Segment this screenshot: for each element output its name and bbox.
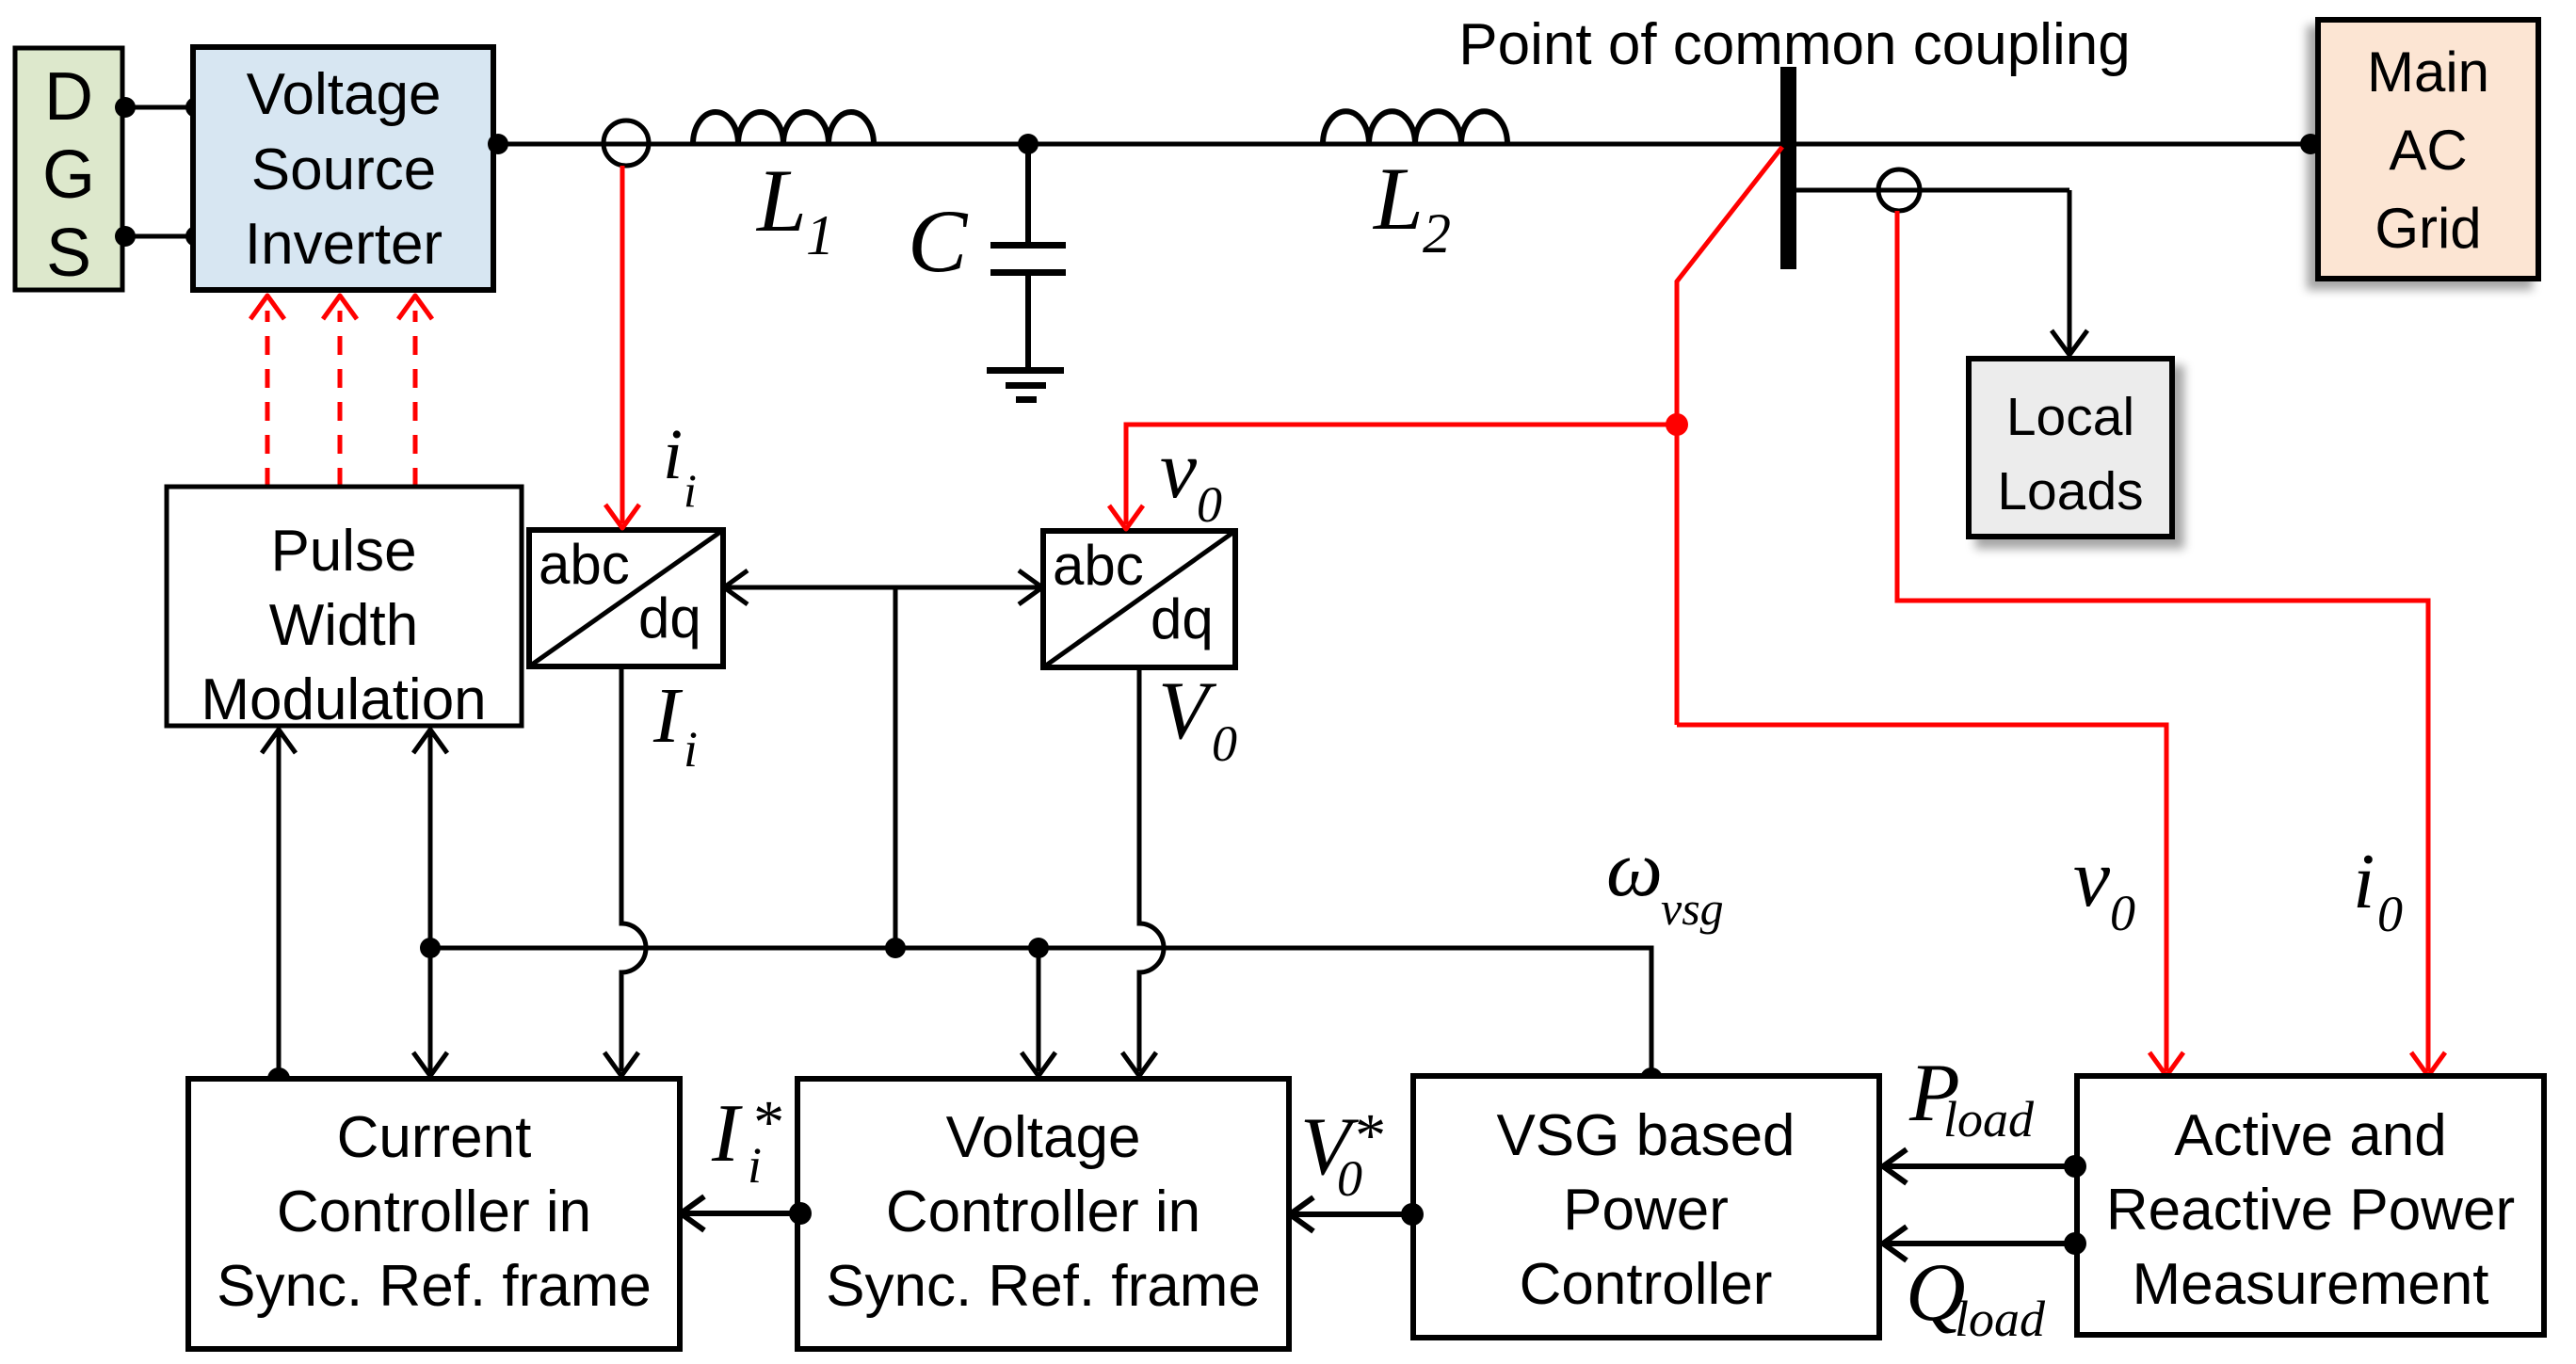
red wire v0 diagonal from PCC: [1677, 147, 1782, 725]
svg-text:L: L: [1372, 149, 1424, 249]
svg-text:Source: Source: [251, 137, 436, 202]
red wire ii from CS1 to abc/dq: [620, 166, 625, 523]
inductor L1: [693, 112, 874, 144]
svg-text:Sync. Ref. frame: Sync. Ref. frame: [826, 1254, 1261, 1319]
svg-text:abc: abc: [539, 533, 630, 596]
node dot at grid: [2300, 134, 2321, 154]
wire Qload: [1886, 1241, 2075, 1246]
red wire i0 from CS2 to measurement: [1897, 211, 2428, 1071]
svg-text:AC: AC: [2389, 119, 2467, 182]
node omega at VSG box: [1640, 1067, 1663, 1090]
svg-text:Sync. Ref. frame: Sync. Ref. frame: [217, 1254, 652, 1319]
wire V0* reference: [1293, 1212, 1412, 1217]
node omega at PWM line: [420, 938, 441, 958]
svg-text:I: I: [711, 1088, 743, 1179]
svg-text:i: i: [663, 415, 683, 494]
label i0: [2353, 838, 2403, 942]
svg-text:0: 0: [1337, 1150, 1362, 1207]
wire DGS-VSI bottom: [115, 226, 206, 247]
wire Ii with hop: [621, 666, 646, 1071]
label Pload: [1908, 1048, 2035, 1147]
svg-text:i: i: [748, 1137, 762, 1194]
svg-text:abc: abc: [1053, 534, 1144, 597]
node Pload at measurement: [2064, 1155, 2086, 1178]
label V0: [1158, 666, 1237, 772]
svg-text:0: 0: [2110, 885, 2135, 941]
svg-text:dq: dq: [638, 586, 701, 650]
arrowhead omega into voltage controller: [1022, 1052, 1055, 1076]
label Qload: [1906, 1247, 2046, 1347]
arrowhead V0*: [1290, 1197, 1313, 1231]
svg-text:Measurement: Measurement: [2132, 1252, 2488, 1317]
node V0* at VSG: [1401, 1203, 1424, 1226]
node VSI output: [488, 134, 508, 154]
gate signal dashed arrow g2: [323, 296, 357, 487]
node Qload at measurement: [2064, 1232, 2086, 1255]
svg-text:I: I: [652, 672, 684, 760]
svg-text:0: 0: [2377, 886, 2403, 942]
label ii: [663, 415, 697, 517]
svg-text:vsg: vsg: [1661, 882, 1724, 935]
svg-text:Active and: Active and: [2174, 1103, 2447, 1168]
label v0 top: [1160, 425, 1222, 533]
svg-text:Inverter: Inverter: [245, 212, 443, 277]
red arrowhead i0 measurement: [2411, 1052, 2445, 1076]
label Ii*: [711, 1088, 781, 1194]
wire DGS-VSI top: [115, 97, 206, 118]
arrowhead PWM left up: [262, 730, 296, 753]
arrowhead Pload: [1883, 1149, 1907, 1183]
wire V0 with hop: [1139, 667, 1164, 1071]
gate signal dashed arrow g3: [398, 296, 432, 487]
arrowhead double down: [413, 1052, 447, 1076]
arrowhead Qload: [1883, 1227, 1907, 1260]
block Voltage Controller: [797, 1079, 1289, 1349]
wire main AC bus: [493, 142, 2318, 147]
svg-text:i: i: [684, 464, 697, 517]
svg-text:C: C: [908, 191, 969, 291]
svg-text:Reactive Power: Reactive Power: [2106, 1178, 2515, 1243]
svg-text:Power: Power: [1563, 1178, 1729, 1243]
arrowhead double up: [413, 730, 447, 753]
svg-text:Controller in: Controller in: [886, 1179, 1200, 1244]
svg-text:load: load: [1955, 1291, 2046, 1347]
block PWM: [167, 487, 522, 732]
wire omega into voltage controller: [1037, 948, 1041, 1071]
node at current controller top: [267, 1067, 290, 1090]
current sensor CS1: [604, 120, 649, 166]
wire PWM-current double arrow: [428, 730, 433, 1073]
block DGS: [15, 48, 122, 291]
svg-text:Current: Current: [337, 1105, 532, 1170]
svg-text:VSG based: VSG based: [1496, 1103, 1795, 1168]
svg-text:i: i: [684, 721, 698, 778]
svg-text:ω: ω: [1606, 825, 1663, 913]
svg-text:Width: Width: [269, 593, 418, 658]
gate signal dashed arrow g1: [250, 296, 284, 487]
node PCC busbar: [1780, 67, 1796, 269]
svg-text:Controller: Controller: [1520, 1252, 1773, 1317]
red arrowhead ii: [605, 505, 639, 528]
wire omega_vsg bus: [430, 948, 1651, 1079]
svg-text:V: V: [1158, 666, 1217, 757]
svg-text:Loads: Loads: [1997, 461, 2143, 522]
label L1: [755, 151, 834, 266]
block Current Controller: [188, 1079, 680, 1349]
label v0 bottom: [2073, 833, 2135, 941]
red arrowhead v0 abc/dq: [1109, 505, 1143, 529]
svg-text:D: D: [44, 59, 93, 135]
svg-text:Local: Local: [2006, 387, 2134, 447]
red arrowhead v0 measurement: [2149, 1052, 2183, 1076]
svg-text:S: S: [46, 216, 91, 291]
arrowhead Ii*: [681, 1196, 704, 1230]
svg-text:Voltage: Voltage: [946, 1105, 1141, 1170]
wire busbar to local loads: [1796, 190, 2069, 352]
transform block abc/dq right: [1043, 531, 1235, 667]
wire Ii* reference: [684, 1211, 800, 1216]
block VSG Controller: [1413, 1076, 1879, 1338]
svg-text:Pulse: Pulse: [270, 519, 416, 584]
block VSI (Voltage Source Inverter) U1: [193, 47, 493, 290]
wire node to capacitor: [1025, 144, 1031, 245]
node Ii* at voltage controller: [789, 1202, 812, 1225]
block Main AC Grid: [2318, 20, 2538, 279]
svg-text:v: v: [1160, 425, 1198, 516]
svg-text:2: 2: [1423, 202, 1451, 265]
svg-text:L: L: [755, 151, 807, 250]
block Local Loads: [1969, 359, 2172, 537]
arrowhead sync left: [724, 570, 748, 604]
ground: [987, 367, 1064, 403]
wire Pload: [1886, 1163, 2075, 1169]
inductor L2: [1323, 111, 1507, 144]
svg-text:0: 0: [1212, 715, 1237, 772]
label omega_vsg: [1606, 825, 1724, 935]
svg-text:Voltage: Voltage: [247, 62, 442, 127]
svg-text:i: i: [2353, 838, 2375, 925]
label L2: [1372, 149, 1451, 265]
svg-text:v: v: [2073, 833, 2111, 924]
svg-text:1: 1: [806, 204, 834, 266]
node omega at voltage drop: [1028, 938, 1049, 958]
transform block abc/dq left: [529, 530, 723, 666]
arrowhead into Local Loads: [2052, 330, 2087, 355]
wire sync drop: [894, 587, 898, 948]
svg-text:load: load: [1943, 1091, 2035, 1147]
arrowhead Ii into current controller: [604, 1052, 638, 1076]
node N1 (filter node): [1018, 134, 1038, 154]
label V0*: [1300, 1101, 1383, 1207]
wire sync between abc/dq blocks: [723, 586, 1043, 590]
red wire v0 to measurement: [1677, 725, 2166, 1071]
svg-text:Controller in: Controller in: [277, 1179, 591, 1244]
capacitor C: [990, 242, 1066, 369]
label Ii: [652, 672, 698, 778]
node red junction: [1666, 413, 1688, 436]
svg-text:Main: Main: [2367, 40, 2489, 104]
block Power Measurement: [2077, 1076, 2544, 1335]
arrowhead sync right: [1019, 570, 1042, 604]
red wire v0 to abc/dq: [1126, 425, 1677, 524]
svg-text:dq: dq: [1151, 587, 1214, 650]
svg-text:0: 0: [1197, 476, 1222, 533]
svg-text:Grid: Grid: [2375, 197, 2481, 260]
svg-text:G: G: [42, 137, 95, 213]
current sensor CS2: [1878, 169, 1920, 211]
wire PWM feedback left: [277, 730, 282, 1079]
svg-text:Modulation: Modulation: [201, 667, 486, 732]
arrowhead V0 into voltage controller: [1122, 1052, 1156, 1076]
node omega at sync drop: [885, 938, 906, 958]
